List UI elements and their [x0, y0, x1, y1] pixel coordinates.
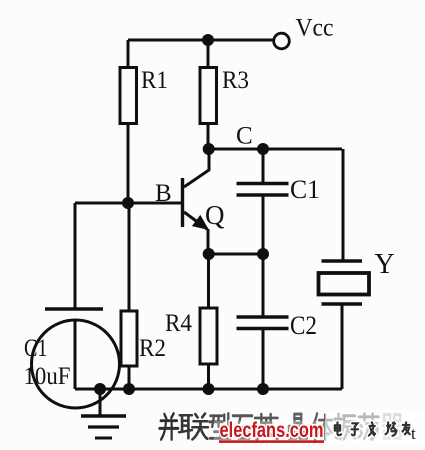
caption char ying: [255, 414, 278, 439]
transistor Q collector: [184, 149, 209, 187]
caption char bing: [160, 414, 179, 440]
caption char dang: [359, 414, 379, 440]
caption char jing: [289, 414, 307, 438]
watermark char shao: [386, 422, 397, 436]
svg-text:Vcc: Vcc: [296, 15, 334, 42]
watermark wash right: [325, 411, 425, 444]
watermark red underline: [219, 440, 324, 443]
svg-text:R2: R2: [139, 335, 166, 362]
wire R1 top lead: [127, 40, 130, 67]
watermark char fa: [369, 422, 375, 435]
wire C2 bottom lead: [262, 329, 265, 389]
watermark char halo fa: [369, 422, 375, 435]
watermark char halo dian: [335, 422, 341, 435]
watermark char dian: [335, 422, 341, 435]
resistor R3: [200, 68, 217, 124]
wire R4 bottom lead: [207, 364, 210, 389]
capacitor C1 plates: [237, 184, 289, 196]
caption char xing: [210, 414, 231, 439]
junction dot node C right: [257, 143, 269, 155]
wire top rail: [128, 39, 274, 42]
watermark translucent wash band: [214, 421, 425, 445]
svg-text:elecfans.com: elecfans.com: [220, 418, 324, 442]
resistor R4: [200, 308, 217, 364]
junction dot emitter row right: [257, 248, 269, 260]
svg-text:R3: R3: [222, 67, 249, 94]
capacitor C1 10uF plates: [45, 307, 103, 310]
wire node C horizontal: [208, 148, 342, 151]
terminal Vcc: [274, 33, 290, 49]
junction dot C2 bottom: [257, 383, 269, 395]
wire C2 top lead: [262, 254, 265, 316]
junction dot node C left: [203, 143, 215, 155]
caption char ti: [312, 414, 332, 440]
wire C1 bottom lead: [262, 196, 265, 254]
svg-text:C: C: [236, 123, 253, 150]
wire left cap top lead: [74, 203, 77, 308]
caption char qi: [383, 415, 402, 439]
svg-text:10uF: 10uF: [24, 363, 71, 390]
svg-text:Y: Y: [375, 249, 395, 280]
caption char zhen: [334, 414, 355, 439]
junction dot top rail: [202, 34, 214, 46]
wire emitter row: [209, 253, 264, 256]
junction dot base node: [122, 197, 134, 209]
watermark char halo shao: [386, 422, 397, 436]
svg-text:R1: R1: [141, 67, 168, 94]
resistor R1: [120, 68, 137, 124]
watermark char halo zi: [352, 423, 359, 435]
caption char shi: [233, 416, 252, 439]
transistor Q base bar: [181, 178, 184, 227]
wire R4 top lead: [207, 254, 210, 308]
svg-text:C1: C1: [290, 175, 320, 204]
ground: [99, 389, 102, 415]
watermark char halo you: [403, 422, 410, 434]
svg-text:R4: R4: [165, 310, 192, 337]
junction dot emitter row left: [203, 248, 215, 260]
wire R3 bottom lead to node C: [207, 124, 210, 150]
svg-text:Q: Q: [205, 200, 225, 230]
caption char lian: [179, 414, 208, 440]
watermark char you: [403, 422, 410, 434]
wire R3 top lead: [207, 40, 210, 67]
transistor Q emitter: [184, 212, 208, 254]
capacitor C2 plates: [237, 317, 289, 329]
junction dot R2 bottom: [123, 383, 135, 395]
wire left cap bottom lead: [74, 321, 77, 389]
junction dot ground: [94, 383, 106, 395]
wire bottom rail: [75, 388, 342, 391]
svg-text:B: B: [155, 180, 172, 207]
svg-text:C1: C1: [24, 335, 48, 362]
wire base horizontal: [75, 202, 181, 205]
wire crystal top drop: [342, 149, 345, 261]
circle highlight around C1: [32, 320, 120, 408]
svg-text:t: t: [411, 424, 416, 443]
watermark char zi: [352, 423, 359, 435]
svg-text:C2: C2: [290, 311, 317, 340]
transistor Q emitter arrowhead: [192, 215, 209, 230]
wire C1 top lead: [262, 149, 265, 184]
resistor R2: [121, 203, 137, 389]
wire crystal bottom riser: [341, 306, 344, 390]
crystal Y: [319, 261, 370, 304]
junction dot R4 bottom: [203, 383, 215, 395]
wire R1 bottom lead to base node: [127, 124, 130, 204]
